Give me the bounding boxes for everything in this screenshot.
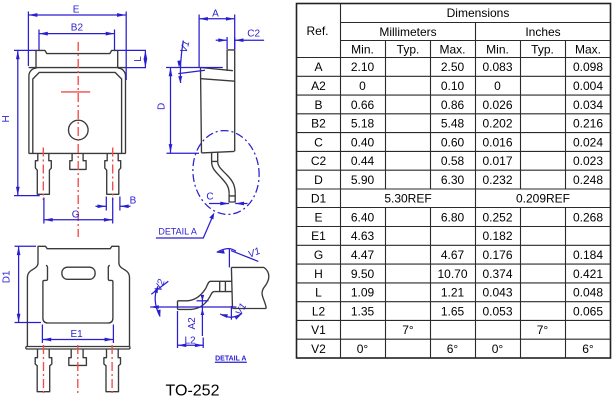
side view tab outline bbox=[227, 50, 235, 71]
svg-text:A: A bbox=[212, 8, 219, 19]
detail V1 bottom arc bbox=[220, 314, 241, 318]
detail V1 bottom arrowheads bbox=[220, 314, 242, 320]
detail foot outer curve bbox=[178, 281, 211, 301]
back view slot bbox=[62, 267, 95, 279]
dimension B2 line bbox=[39, 33, 115, 35]
dimension L2 line bbox=[178, 344, 204, 346]
back view center stub bbox=[69, 349, 87, 365]
svg-text:4.47: 4.47 bbox=[351, 248, 375, 262]
dimension G witness lines bbox=[44, 198, 113, 224]
svg-text:D1: D1 bbox=[311, 192, 327, 206]
svg-text:0: 0 bbox=[359, 79, 366, 93]
front view body outer left edge bbox=[29, 68, 37, 153]
detail lead bend ticks bbox=[220, 281, 226, 291]
svg-text:0: 0 bbox=[494, 79, 501, 93]
svg-text:0.017: 0.017 bbox=[482, 154, 512, 168]
table vertical line mm/inches bbox=[475, 23, 477, 359]
side view right edge bbox=[234, 50, 236, 151]
back view flange lines bbox=[26, 347, 130, 350]
svg-text:0.016: 0.016 bbox=[482, 135, 512, 149]
dimension D line bbox=[170, 68, 172, 153]
dimension E line bbox=[29, 14, 126, 16]
svg-text:Ref.: Ref. bbox=[306, 24, 328, 38]
detail foot left edge bbox=[177, 301, 179, 310]
svg-text:5.48: 5.48 bbox=[441, 117, 465, 131]
table outer border bbox=[297, 4, 611, 359]
svg-text:E: E bbox=[73, 4, 80, 15]
detail body top edge bbox=[231, 266, 264, 268]
detail seating line left arrowhead bbox=[150, 305, 159, 309]
back view left lead bbox=[35, 349, 52, 392]
svg-text:L: L bbox=[133, 56, 144, 62]
dimension A line bbox=[199, 18, 235, 20]
svg-text:D: D bbox=[156, 103, 167, 110]
table row C bbox=[314, 135, 603, 149]
svg-text:A: A bbox=[314, 60, 322, 74]
detail V1 top vertical line bbox=[228, 249, 230, 267]
detail A callout arrowhead bbox=[209, 213, 214, 220]
table row E1 bbox=[311, 229, 513, 243]
svg-text:0°: 0° bbox=[357, 342, 369, 356]
svg-text:0.048: 0.048 bbox=[573, 286, 603, 300]
svg-text:C: C bbox=[206, 192, 213, 203]
svg-text:2.10: 2.10 bbox=[351, 60, 375, 74]
front view left lead bbox=[35, 153, 51, 194]
svg-text:0.098: 0.098 bbox=[573, 60, 603, 74]
side view V1 angle slant witness bbox=[178, 70, 205, 73]
table row B bbox=[314, 98, 603, 112]
table vertical min/typ inches bbox=[520, 41, 522, 359]
table row V1 bbox=[311, 323, 548, 337]
svg-text:0.023: 0.023 bbox=[573, 154, 603, 168]
svg-text:0.60: 0.60 bbox=[441, 135, 465, 149]
svg-text:C2: C2 bbox=[247, 29, 260, 40]
front view body outer right edge bbox=[118, 68, 126, 153]
back view right flare bbox=[119, 263, 130, 347]
svg-text:0.374: 0.374 bbox=[482, 267, 512, 281]
svg-text:5.18: 5.18 bbox=[351, 117, 375, 131]
svg-text:C2: C2 bbox=[311, 154, 327, 168]
back view red lead center lines bbox=[44, 345, 113, 396]
dimension B witness lines bbox=[106, 197, 120, 211]
detail V1 bottom vertical line bbox=[230, 306, 232, 320]
dimension B arrow left bbox=[96, 205, 107, 207]
detail V1 top leader line bbox=[231, 251, 258, 262]
table row lines bbox=[297, 76, 611, 339]
svg-text:DETAIL A: DETAIL A bbox=[158, 227, 197, 237]
svg-text:0.065: 0.065 bbox=[573, 304, 603, 318]
dimension D1 line bbox=[18, 246, 20, 322]
svg-text:V1: V1 bbox=[247, 246, 262, 261]
svg-text:0.40: 0.40 bbox=[351, 135, 375, 149]
dimension C2 arrow left bbox=[216, 39, 227, 41]
svg-text:V2: V2 bbox=[153, 278, 168, 294]
svg-text:1.09: 1.09 bbox=[351, 286, 375, 300]
side view lead upper segment bbox=[212, 152, 218, 161]
dimension C arrow right bbox=[235, 203, 247, 205]
svg-text:0.024: 0.024 bbox=[573, 135, 603, 149]
front view red left lead center line bbox=[42, 148, 44, 201]
svg-text:A2: A2 bbox=[311, 79, 326, 93]
svg-text:V2: V2 bbox=[311, 342, 326, 356]
svg-text:0.182: 0.182 bbox=[482, 229, 512, 243]
svg-text:6.80: 6.80 bbox=[441, 210, 465, 224]
svg-text:H: H bbox=[1, 115, 12, 122]
table row A2 bbox=[311, 79, 603, 93]
table row A bbox=[314, 60, 603, 74]
svg-text:10.70: 10.70 bbox=[437, 267, 467, 281]
table row E bbox=[314, 210, 603, 224]
table vertical typ/max inches bbox=[565, 41, 567, 359]
back view pad and ears outline bbox=[43, 265, 113, 323]
detail body broken right edge bbox=[262, 267, 269, 308]
side view V1 arrowhead upper bbox=[177, 60, 181, 67]
table row D bbox=[314, 173, 603, 187]
detail V1 top arc bbox=[217, 249, 236, 253]
front view red cross tick bbox=[61, 91, 90, 93]
dimension C2 witness lines bbox=[227, 37, 235, 49]
detail body left edge bbox=[231, 267, 232, 308]
svg-text:B: B bbox=[130, 196, 137, 207]
svg-text:0.232: 0.232 bbox=[482, 173, 512, 187]
dimension L2 witness lines bbox=[178, 311, 204, 348]
dimension D1 witness lines bbox=[15, 246, 42, 322]
svg-text:E: E bbox=[314, 210, 322, 224]
dimension A2 arrowheads bbox=[201, 295, 205, 315]
svg-text:0.252: 0.252 bbox=[482, 210, 512, 224]
svg-text:4.67: 4.67 bbox=[441, 248, 465, 262]
side view V1 arrowhead lower bbox=[178, 76, 182, 83]
svg-text:Typ.: Typ. bbox=[531, 42, 554, 56]
table row L bbox=[315, 286, 603, 300]
front view mounting hole circle bbox=[69, 120, 89, 140]
svg-text:9.50: 9.50 bbox=[351, 267, 375, 281]
detail seating plane line bbox=[150, 306, 236, 308]
table row L2 bbox=[312, 304, 604, 318]
svg-text:0.004: 0.004 bbox=[573, 79, 603, 93]
svg-text:L: L bbox=[315, 286, 322, 300]
svg-text:DETAIL A: DETAIL A bbox=[215, 355, 246, 362]
detail foot bottom curve bbox=[178, 292, 215, 310]
table vertical min/typ mm bbox=[385, 41, 387, 359]
svg-text:4.63: 4.63 bbox=[351, 229, 375, 243]
side view bottom edge bbox=[202, 151, 235, 153]
svg-text:2.50: 2.50 bbox=[441, 60, 465, 74]
front view red center line vertical bbox=[77, 42, 79, 237]
detail A callout underline and leader bbox=[156, 217, 213, 239]
svg-text:0.66: 0.66 bbox=[351, 98, 375, 112]
svg-text:0.176: 0.176 bbox=[482, 248, 512, 262]
table row H bbox=[314, 267, 603, 281]
svg-text:7°: 7° bbox=[402, 323, 414, 337]
svg-text:0.421: 0.421 bbox=[573, 267, 603, 281]
svg-text:6°: 6° bbox=[582, 342, 594, 356]
front view body bottom line bbox=[29, 152, 126, 154]
side view lead tip bbox=[229, 193, 235, 202]
svg-text:Inches: Inches bbox=[525, 25, 560, 39]
side view V1 angle reference curve bbox=[180, 41, 183, 84]
svg-text:0.10: 0.10 bbox=[441, 79, 465, 93]
front view red right lead center line bbox=[112, 148, 114, 201]
svg-text:L2: L2 bbox=[184, 336, 196, 347]
dimension B arrow right bbox=[120, 205, 131, 207]
svg-text:0.58: 0.58 bbox=[441, 154, 465, 168]
svg-text:Min.: Min. bbox=[351, 42, 374, 56]
front view right lead bbox=[105, 153, 121, 194]
svg-text:Max.: Max. bbox=[439, 42, 465, 56]
dimension D witness lines bbox=[166, 68, 223, 154]
svg-text:1.21: 1.21 bbox=[441, 286, 465, 300]
table horizontal header lines bbox=[297, 23, 611, 58]
front view tab outline bbox=[36, 50, 118, 67]
svg-text:V1: V1 bbox=[179, 40, 193, 55]
dimension E1 witness lines bbox=[42, 325, 113, 344]
svg-text:Dimensions: Dimensions bbox=[447, 6, 510, 20]
detail zone ellipse bbox=[189, 127, 263, 217]
svg-text:0°: 0° bbox=[492, 342, 504, 356]
svg-text:0.86: 0.86 bbox=[441, 98, 465, 112]
dimension A2 witness line bbox=[197, 300, 209, 302]
dimension H line bbox=[17, 50, 19, 195]
back view right lead bbox=[104, 349, 121, 392]
dimension A witness lines bbox=[199, 15, 235, 68]
svg-text:H: H bbox=[314, 267, 323, 281]
detail body bottom edge bbox=[233, 308, 267, 310]
svg-text:5.30REF: 5.30REF bbox=[384, 192, 431, 206]
table row D1 bbox=[311, 192, 570, 206]
detail V2 arrowheads bbox=[154, 286, 161, 317]
side view top slant line 2 bbox=[201, 79, 235, 82]
front view center stub bbox=[70, 153, 86, 169]
svg-text:7°: 7° bbox=[537, 323, 549, 337]
side view left edge bbox=[201, 68, 202, 153]
svg-text:Millimeters: Millimeters bbox=[379, 25, 436, 39]
svg-text:0.184: 0.184 bbox=[573, 248, 603, 262]
svg-text:0.248: 0.248 bbox=[573, 173, 603, 187]
svg-text:0.44: 0.44 bbox=[351, 154, 375, 168]
svg-text:0.053: 0.053 bbox=[482, 304, 512, 318]
front view body inner outline bbox=[33, 72, 122, 153]
svg-text:0.209REF: 0.209REF bbox=[516, 192, 570, 206]
detail A label underline bbox=[215, 361, 247, 363]
detail lead bottom line bbox=[214, 291, 232, 293]
svg-text:0.026: 0.026 bbox=[482, 98, 512, 112]
svg-text:L2: L2 bbox=[312, 304, 326, 318]
table row V2 bbox=[311, 342, 594, 356]
svg-text:Typ.: Typ. bbox=[397, 42, 420, 56]
svg-text:B: B bbox=[314, 98, 322, 112]
svg-text:5.90: 5.90 bbox=[351, 173, 375, 187]
svg-text:0.216: 0.216 bbox=[573, 117, 603, 131]
svg-text:0.202: 0.202 bbox=[482, 117, 512, 131]
dimension B2 witness lines bbox=[39, 30, 115, 51]
detail V2 reference slant line bbox=[151, 281, 168, 294]
dimension L line bbox=[144, 50, 146, 67]
back view left flare bbox=[27, 263, 38, 347]
dimension H witness lines bbox=[14, 50, 40, 195]
svg-text:D1: D1 bbox=[1, 270, 12, 283]
table row C2 bbox=[311, 154, 604, 168]
dimension A2 line bbox=[201, 296, 203, 336]
back view tab top outline bbox=[38, 246, 119, 263]
svg-text:6.30: 6.30 bbox=[441, 173, 465, 187]
table row G bbox=[314, 248, 604, 262]
svg-text:6°: 6° bbox=[447, 342, 459, 356]
svg-text:E1: E1 bbox=[70, 329, 83, 340]
detail lead top line bbox=[210, 280, 231, 282]
table vertical typ/max mm bbox=[430, 41, 432, 359]
svg-text:Min.: Min. bbox=[486, 42, 509, 56]
svg-text:B2: B2 bbox=[71, 23, 84, 34]
svg-text:C: C bbox=[314, 135, 323, 149]
detail V1 top arrowhead bbox=[216, 250, 224, 254]
svg-text:1.35: 1.35 bbox=[351, 304, 375, 318]
dimension L extension lines bbox=[118, 50, 146, 67]
dimension G line bbox=[44, 219, 113, 221]
svg-text:A2: A2 bbox=[187, 317, 198, 330]
svg-text:D: D bbox=[314, 173, 323, 187]
side view top slant line 1 bbox=[201, 68, 233, 71]
svg-text:E1: E1 bbox=[311, 229, 326, 243]
side view lead S-bend bbox=[212, 161, 236, 193]
svg-text:V1: V1 bbox=[311, 323, 326, 337]
svg-text:1.65: 1.65 bbox=[441, 304, 465, 318]
svg-text:B2: B2 bbox=[311, 117, 326, 131]
svg-text:TO-252: TO-252 bbox=[166, 383, 220, 400]
detail V2 arc bbox=[155, 286, 160, 316]
svg-text:G: G bbox=[72, 210, 80, 221]
table vertical line after Ref column bbox=[340, 4, 342, 359]
dimension E witness lines bbox=[28, 12, 126, 81]
svg-text:G: G bbox=[314, 248, 323, 262]
svg-text:6.40: 6.40 bbox=[351, 210, 375, 224]
table row B2 bbox=[311, 117, 603, 131]
svg-text:0.034: 0.034 bbox=[573, 98, 603, 112]
dimension C arrow left bbox=[209, 203, 229, 205]
svg-text:Max.: Max. bbox=[575, 42, 601, 56]
dimension E1 line bbox=[42, 339, 113, 341]
svg-text:0.043: 0.043 bbox=[482, 286, 512, 300]
svg-text:0.083: 0.083 bbox=[482, 60, 512, 74]
svg-text:0.268: 0.268 bbox=[573, 210, 603, 224]
svg-text:V1: V1 bbox=[234, 302, 249, 318]
dimension C2 arrow right bbox=[235, 39, 264, 41]
front view body top line bbox=[29, 67, 126, 69]
